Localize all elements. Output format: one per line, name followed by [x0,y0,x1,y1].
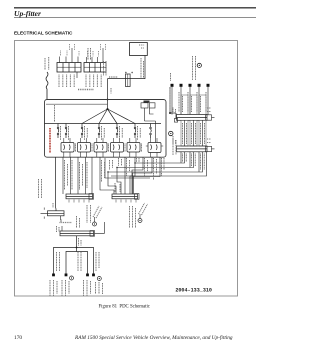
svg-text:Figure 81 PDC Schematic: Figure 81 PDC Schematic [99,305,150,310]
svg-text:RAM 1500 Special Service Vehic: RAM 1500 Special Service Vehicle Overvie… [74,334,233,341]
svg-text:2004-133_310: 2004-133_310 [175,288,212,294]
svg-text:ELECTRICAL SCHEMATIC: ELECTRICAL SCHEMATIC [14,31,73,36]
svg-text:170: 170 [14,335,22,341]
svg-text:Up-fitter: Up-fitter [14,9,42,18]
